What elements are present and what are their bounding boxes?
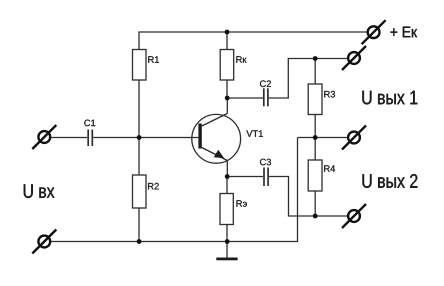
resistor R1 [133, 50, 147, 81]
wire R4 bottom stub [314, 191, 316, 216]
wire collector [226, 98, 228, 114]
label C3 [260, 159, 271, 166]
wire bottom rail [51, 138, 298, 242]
terminal +Ek [362, 20, 386, 44]
node R2 bottom rail junction [137, 239, 142, 244]
node R3-R4 mid junction [313, 135, 318, 140]
wire collector to C2 [227, 97, 263, 99]
resistor Rk [220, 50, 234, 81]
node collector junction [225, 96, 230, 101]
terminal output mid [342, 126, 366, 150]
terminal output2 bottom [342, 204, 366, 228]
resistor Re [220, 194, 233, 225]
wire base [139, 137, 198, 139]
terminal output1 top [342, 46, 366, 70]
wire C2 up link [269, 59, 348, 99]
wire emitter node to C3 [227, 176, 263, 178]
label +Ek [390, 27, 417, 38]
node R3 top junction [313, 56, 318, 61]
label U vyx 1 [362, 91, 417, 105]
label VT1 [246, 130, 263, 136]
transistor VT1 [192, 114, 241, 164]
label Re [237, 200, 247, 206]
capacitor C1 [88, 130, 92, 147]
wire input top [51, 137, 88, 139]
label C1 [84, 120, 95, 127]
label R3 [324, 91, 335, 98]
wire Rk to collector node [226, 80, 228, 98]
label R4 [324, 165, 335, 171]
wire C1 to node [93, 137, 139, 139]
node Rk top rail junction [225, 30, 230, 35]
wire emitter node to Re [226, 177, 228, 194]
wire R3 bottom stub [314, 115, 316, 138]
wire R2 bottom [138, 208, 140, 242]
wire emitter [226, 161, 228, 177]
capacitor C2 [264, 88, 268, 106]
resistor R2 [133, 175, 147, 208]
label Rk [236, 56, 246, 62]
label R2 [148, 183, 159, 189]
ground [216, 258, 237, 261]
wire Rk top stub [226, 32, 228, 50]
label C2 [260, 80, 271, 87]
wire R4 top stub [314, 138, 316, 161]
terminal input bottom [32, 230, 56, 254]
terminal input top [32, 125, 56, 149]
wire top rail [139, 32, 367, 50]
wire Re to ground [226, 225, 228, 259]
capacitor C3 [264, 168, 268, 187]
label R1 [148, 56, 159, 62]
resistor R3 [308, 84, 322, 115]
wire mid line to terminal [298, 137, 348, 139]
wire R3 top stub [314, 59, 316, 85]
node R4 bottom junction [313, 214, 318, 219]
node emitter junction [225, 174, 230, 179]
label U vyx 2 [362, 174, 417, 188]
wire C3 down link [269, 177, 348, 217]
node base junction [137, 135, 142, 140]
node Re ground rail junction [225, 239, 230, 244]
resistor R4 [308, 160, 322, 191]
wire R1 to base node [138, 80, 140, 175]
label U vx [24, 184, 55, 198]
